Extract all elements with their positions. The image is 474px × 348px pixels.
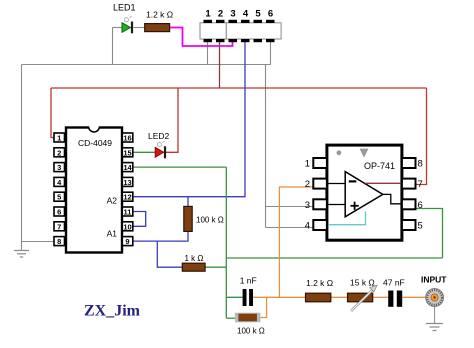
wire red to op-amp pin7 [415, 88, 426, 185]
svg-text:6: 6 [57, 208, 61, 217]
OP741 pin boxes right 8-5 [402, 158, 416, 230]
svg-text:1.2 k Ω: 1.2 k Ω [306, 278, 333, 288]
wire orange bottom bus [253, 296, 306, 298]
svg-text:5: 5 [255, 9, 261, 20]
svg-text:2: 2 [305, 179, 310, 190]
wire to op-amp pin4 [266, 227, 315, 229]
wire green 1k right lead [205, 266, 226, 268]
svg-text:9: 9 [125, 237, 129, 246]
input jack J2 [426, 289, 444, 307]
svg-text:14: 14 [123, 163, 132, 172]
capacitor C1 1nF [243, 289, 253, 306]
wire connector pin1 drop [207, 42, 209, 65]
svg-text:47 nF: 47 nF [383, 278, 405, 288]
wire red to CD4049 pin1 [51, 88, 54, 138]
CD4049 pin boxes right 16-9 [122, 133, 133, 246]
op-amp dot marker [337, 150, 342, 155]
ground input jack [426, 324, 443, 331]
wire green vertical rail [225, 167, 227, 318]
OP741 pin boxes left 1-4 [313, 158, 327, 230]
svg-text:5: 5 [418, 221, 423, 232]
op-amp internal dark red wire to pin7 [365, 182, 402, 184]
wire blue connector pin4 to CD4049 pin12 [133, 42, 245, 268]
svg-text:6: 6 [418, 200, 423, 211]
svg-text:2: 2 [218, 9, 223, 20]
svg-text:1 nF: 1 nF [240, 276, 257, 286]
wire red drop to LED2 [166, 88, 178, 152]
wire gray top bus [22, 28, 315, 251]
op-amp notch triangle [360, 149, 369, 158]
wire jack to ground [434, 307, 436, 324]
svg-text:3: 3 [305, 200, 310, 211]
svg-text:12: 12 [123, 193, 131, 202]
connector pin dashes [204, 20, 275, 42]
trimmer arrow [351, 288, 375, 311]
LED2 sparkle [158, 141, 165, 147]
wire green pin15 to LED2 [133, 151, 155, 153]
svg-text:8: 8 [57, 237, 61, 246]
wire gray vertical left rail to ground [21, 65, 23, 251]
wire green pin14 to vertical [133, 166, 226, 168]
svg-text:8: 8 [418, 159, 423, 170]
svg-text:13: 13 [123, 178, 131, 187]
svg-text:10: 10 [123, 222, 131, 231]
wire LED1 leads horizontal [113, 27, 123, 29]
svg-text:3: 3 [57, 163, 61, 172]
IC notch [89, 126, 100, 129]
op-amp output wire to pin6 [383, 194, 402, 203]
op-amp triangle symbol [345, 172, 383, 217]
trimmer R6 15k [348, 285, 378, 311]
svg-text:LED2: LED2 [148, 131, 170, 141]
CD4049 pin boxes left 1-8 [54, 133, 65, 246]
wire magenta resistor to connector pin3 [170, 28, 233, 47]
wire orange 1.2k to 15k [331, 296, 348, 298]
wire orange nets [253, 187, 426, 318]
op-amp internal wire pin2 to minus input [327, 183, 345, 185]
svg-text:CD-4049: CD-4049 [78, 138, 112, 148]
wire to op-amp pin3 [266, 206, 315, 208]
svg-text:15 k Ω: 15 k Ω [350, 278, 375, 288]
svg-text:1: 1 [205, 9, 211, 20]
ground left [14, 251, 29, 258]
svg-text:1.2 k Ω: 1.2 k Ω [146, 10, 173, 20]
op-amp minus sign [349, 180, 357, 182]
IC U2 OP-741 body [327, 145, 402, 240]
resistor R3 1k [182, 263, 205, 271]
CD4049 pin numbers [57, 134, 132, 247]
wire connector pin6 drop [270, 42, 272, 65]
svg-text:3: 3 [230, 9, 235, 20]
wire orange 100k bottom right loop [259, 297, 266, 317]
OP741 pin numbers [305, 159, 423, 232]
wire gray drop to op-amp pins 3,4 [265, 65, 267, 228]
svg-text:6: 6 [268, 9, 273, 20]
op-amp cyan wire to pin4 [329, 211, 366, 224]
svg-text:INPUT: INPUT [421, 275, 447, 285]
wire blue loop pin11-pin10 [133, 212, 146, 227]
op-amp internal wire pin3 to plus input [327, 204, 345, 206]
resistor R1 1.2k top [145, 24, 170, 32]
svg-text:11: 11 [124, 208, 132, 217]
svg-text:ZX_Jim: ZX_Jim [84, 303, 141, 320]
svg-text:1 k Ω: 1 k Ω [185, 254, 204, 263]
resistor R2 100k vertical [184, 206, 192, 231]
LED2 [155, 141, 165, 158]
wire green nets [133, 152, 443, 318]
svg-text:2: 2 [57, 148, 61, 157]
svg-text:5: 5 [57, 193, 61, 202]
wire red bus [51, 88, 427, 185]
capacitor C2 47nF [388, 291, 402, 307]
resistor R5 1.2k bottom [306, 293, 331, 302]
svg-text:A2: A2 [107, 196, 118, 206]
wire green bus y=258 [226, 257, 442, 259]
connector pin numbers 1-6 [205, 9, 273, 20]
wire blue 100k top lead [187, 197, 189, 207]
svg-text:7: 7 [418, 179, 423, 190]
svg-text:4: 4 [243, 9, 249, 20]
svg-text:1: 1 [305, 159, 310, 170]
LED1 sparkle [125, 16, 132, 22]
svg-text:100 k Ω: 100 k Ω [196, 216, 224, 225]
svg-text:100 k Ω: 100 k Ω [237, 327, 265, 336]
svg-text:LED1: LED1 [113, 3, 136, 13]
wire orange 15k to 47nF [373, 296, 389, 298]
op-amp plus sign [351, 202, 359, 210]
IC U1 CD-4049 body [66, 126, 122, 253]
wire dark red connector pin2 [219, 42, 221, 89]
wire orange 47nF to input jack [402, 296, 426, 298]
wire LED1 left lead drop [112, 28, 114, 65]
wire green op-amp pin6 [415, 209, 442, 259]
wire gray horizontal bus y=64.5 [22, 64, 271, 66]
wire blue 100k bottom lead to pin9 bus [133, 231, 188, 241]
connector J1 body [200, 23, 281, 39]
wire blue pin9 down to 1k [157, 241, 182, 267]
svg-text:7: 7 [57, 222, 61, 231]
resistor R4 100k bottom [235, 313, 260, 322]
wire green 100k bottom left lead [226, 317, 236, 319]
svg-text:OP-741: OP-741 [364, 161, 395, 171]
svg-text:1: 1 [57, 134, 61, 143]
wire green cap 1nF left lead [226, 296, 242, 298]
wire CD4049 pin8 to ground rail [22, 241, 55, 243]
svg-text:4: 4 [305, 221, 310, 232]
LED1 [122, 16, 132, 33]
svg-text:A1: A1 [107, 229, 118, 239]
wire orange vertical to op-amp pin2 [279, 187, 313, 297]
svg-text:15: 15 [123, 148, 131, 157]
svg-text:16: 16 [123, 134, 131, 143]
